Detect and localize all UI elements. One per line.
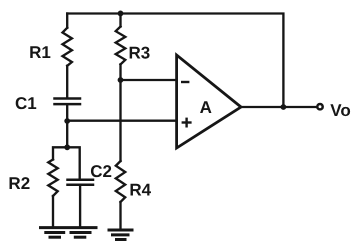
svg-text:R3: R3	[129, 44, 151, 63]
ground (shared, under R2 and C2)	[41, 228, 97, 238]
wire node B down to R4	[119, 80, 121, 161]
wire R2/C2 parallel top bar	[53, 147, 80, 178]
wire R1 to C1	[66, 66, 68, 98]
resistor R3	[116, 27, 126, 65]
svg-text:R2: R2	[8, 174, 30, 193]
node B junction	[118, 77, 124, 83]
resistor R2	[48, 160, 57, 197]
capacitor C2	[68, 180, 94, 185]
svg-text:A: A	[200, 98, 212, 117]
svg-text:R1: R1	[29, 43, 51, 62]
wire top rail and right feedback drop	[67, 14, 283, 108]
wire output from op-amp apex to terminal	[241, 106, 317, 108]
wire R2 to ground	[52, 196, 54, 227]
wire R3 to node B	[119, 64, 121, 80]
wire C1 to node A and down to R2/C2 bar	[66, 105, 68, 147]
svg-text:R4: R4	[129, 181, 151, 200]
svg-text:C2: C2	[90, 162, 112, 181]
wire R1 top lead from rail	[66, 14, 68, 28]
wire node A to op-amp + input	[67, 120, 176, 122]
op-amp A triangle	[177, 55, 241, 148]
wire R4 to ground	[119, 202, 121, 230]
node A junction	[64, 118, 70, 124]
svg-text:Vo: Vo	[330, 101, 350, 120]
svg-text:C1: C1	[15, 94, 37, 113]
op-amp plus sign	[183, 119, 191, 127]
wire R3 top lead from rail	[119, 14, 121, 27]
node junction rail/R3	[118, 11, 124, 17]
node junction output/feedback	[281, 104, 287, 110]
output terminal Vo circle	[317, 104, 322, 109]
capacitor C1	[55, 99, 81, 105]
wire C2 to ground	[79, 186, 81, 228]
wire node B to op-amp - input	[121, 79, 177, 81]
resistor R4	[116, 161, 125, 202]
op-amp minus sign	[182, 81, 188, 83]
ground (under R4)	[109, 230, 132, 240]
resistor R1	[63, 28, 72, 66]
node junction R2/C2 bar	[64, 144, 70, 150]
